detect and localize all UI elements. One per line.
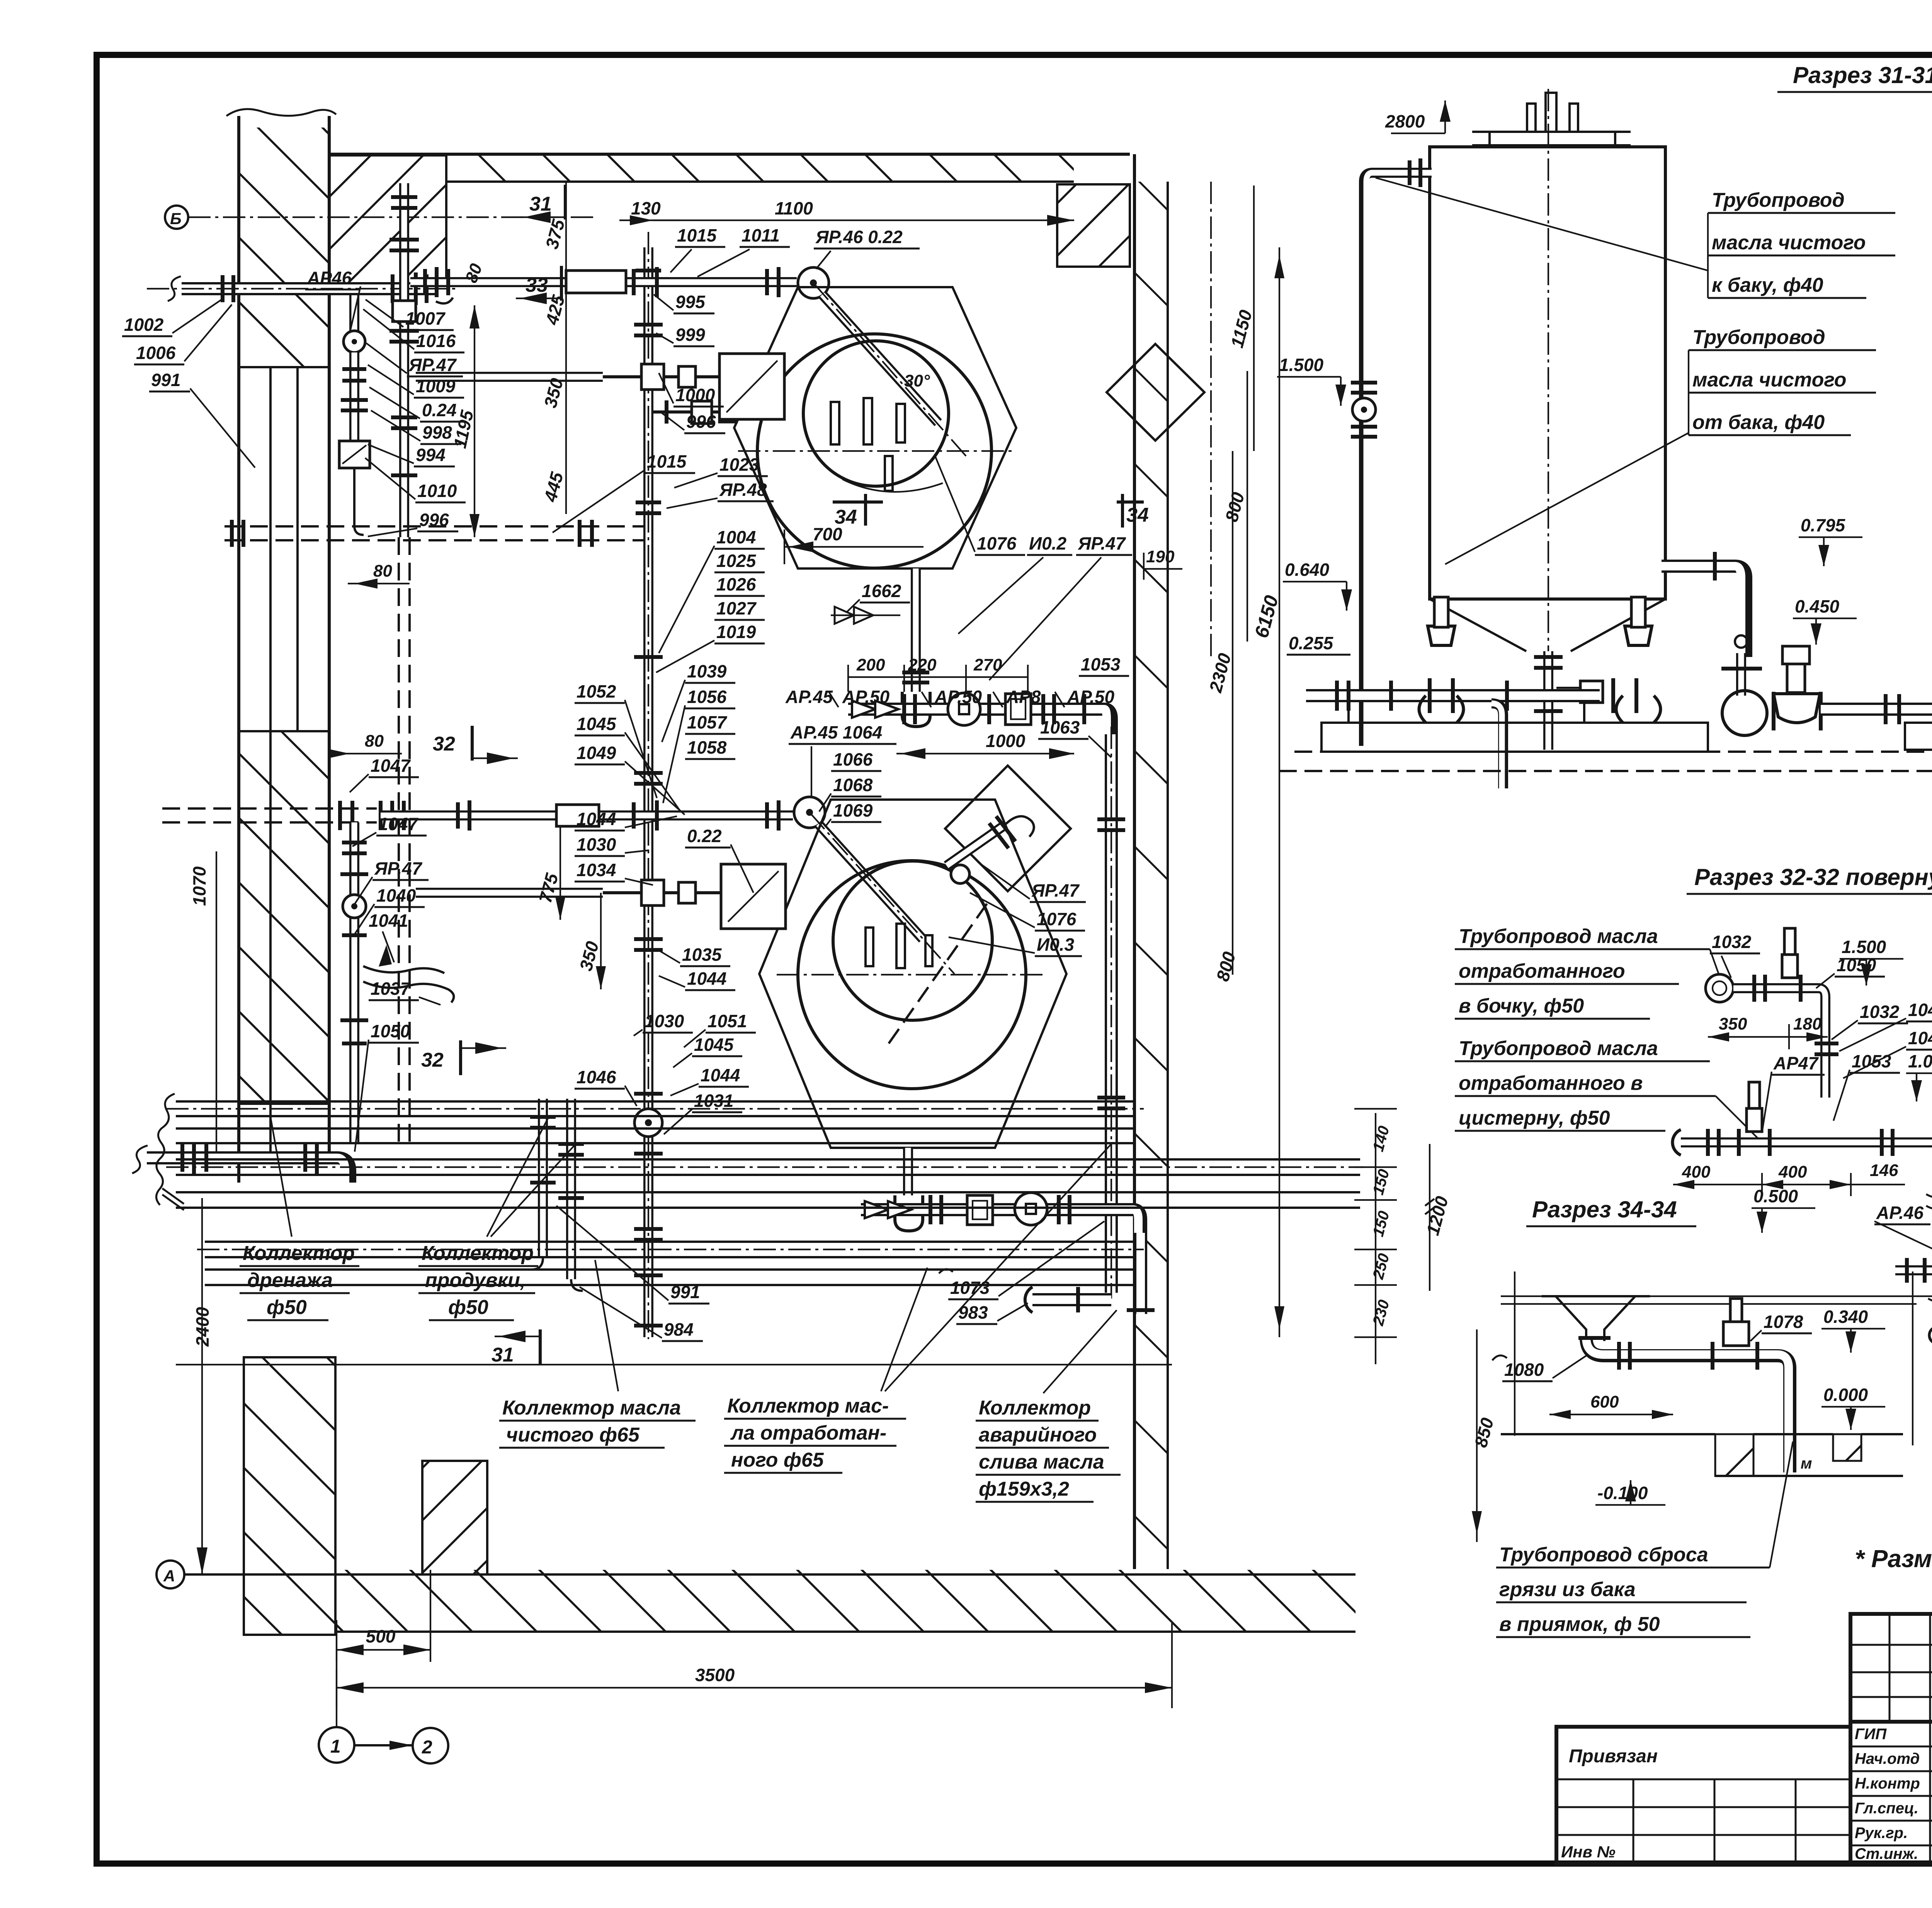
svg-text:АР.45 1064: АР.45 1064 [790,722,882,742]
svg-text:1: 1 [330,1736,341,1757]
collector pipe 4 [176,1192,1360,1208]
label 0.22 b [685,826,753,893]
svg-text:994: 994 [416,445,446,465]
small wall block [422,1461,487,1574]
dim 850 rotated [1470,1329,1497,1542]
svg-text:И0.2: И0.2 [1029,533,1066,553]
section mark 34 right [1117,494,1149,528]
svg-text:1015: 1015 [647,451,687,471]
label 1057 [685,712,735,734]
svg-text:Разрез 32-32 повернуто: Разрез 32-32 повернуто [1694,864,1932,890]
signature table grid [1850,1614,1932,1864]
svg-text:1009: 1009 [416,376,456,396]
tank2 diamond [945,766,1071,891]
svg-text:Трубопровод: Трубопровод [1712,189,1845,211]
svg-text:Привязан: Привязан [1569,1746,1658,1767]
svg-text:1002: 1002 [124,315,164,335]
dim 6150 rotated [1250,247,1284,1337]
svg-text:в бочку, ф50: в бочку, ф50 [1459,995,1584,1017]
svg-text:1.500: 1.500 [1842,937,1886,957]
svg-text:отработанного в: отработанного в [1459,1072,1643,1094]
svg-text:дренажа: дренажа [247,1269,333,1292]
svg-text:1070: 1070 [189,866,209,906]
svg-text:Разрез 34-34: Разрез 34-34 [1532,1197,1677,1222]
label 1000 [659,373,724,407]
svg-text:Гл.спец.: Гл.спец. [1855,1800,1918,1817]
label 1049 [575,743,685,815]
section mark 33 top [516,266,561,304]
tank1 diagonal pipe [813,283,966,456]
svg-text:983: 983 [958,1302,988,1322]
label 1058 [685,737,735,759]
section31 left manifold [1301,597,1708,788]
svg-text:1080: 1080 [1504,1360,1544,1380]
dim 350 rotated [540,376,567,410]
tank2 feed pipe P5 [381,800,793,831]
label 1015 mid [553,451,695,533]
svg-text:1031: 1031 [694,1091,733,1111]
left riser pipe under P1 [339,295,370,535]
label 1046 [575,1067,637,1106]
section 34 ref lines [1501,1271,1932,1445]
svg-text:ЯР.46 0.22: ЯР.46 0.22 [815,227,903,247]
svg-text:ф159х3,2: ф159х3,2 [979,1478,1069,1500]
dim 130 [619,198,680,225]
svg-text:-0.100: -0.100 [1597,1483,1648,1503]
svg-text:1006: 1006 [136,343,176,363]
label ЯР.47 left [366,343,463,376]
label 1040 [354,885,425,935]
left wall column [226,109,336,1183]
label Коллектор дренажа ф50 [240,1117,359,1320]
label 1044 a [575,809,677,831]
svg-text:0.000: 0.000 [1823,1385,1868,1405]
dim 1.500 left [1277,355,1346,406]
dim 800 rotated b [1212,950,1239,984]
svg-text:Нач.отд: Нач.отд [1855,1750,1920,1767]
svg-text:1100: 1100 [775,198,813,218]
svg-text:0.795: 0.795 [1801,515,1846,535]
dim 0.640 [1283,560,1352,611]
label ЯР.47 b [353,858,429,906]
label 1025 [714,551,765,572]
label 1007 [366,300,454,330]
tank1 outer circle [757,334,992,568]
svg-text:996: 996 [686,412,716,432]
svg-text:32: 32 [421,1049,444,1071]
svg-text:ЯР.47: ЯР.47 [1078,533,1126,553]
axis 1 circle [319,1620,354,1763]
svg-text:1030: 1030 [645,1011,684,1031]
label ЯР.46 0.22 [814,227,920,269]
svg-text:ЯР.47: ЯР.47 [1031,880,1080,900]
dim 1195 rotated [450,305,480,537]
dim 350 rotated b [575,893,606,989]
left wall hatched block lower [240,731,329,1104]
label 1030 a [575,834,649,856]
label 1045 [575,714,680,811]
section 34 pipe [1578,1299,1790,1472]
label 983 [956,1302,1028,1324]
svg-text:1051: 1051 [707,1011,747,1031]
label 1010 [365,458,466,502]
feed column C1 [389,183,419,537]
svg-text:слива масла: слива масла [979,1451,1104,1473]
section31 regulator valve [1774,646,1821,730]
dashed horizontal pipe D3 [162,801,404,830]
label 995 [654,292,714,313]
collector left break [156,1094,175,1205]
svg-text:0.255: 0.255 [1289,633,1334,653]
label 1047 b [352,814,427,846]
label 1662 [846,581,910,613]
label 1051 [684,1011,756,1047]
svg-text:1016: 1016 [416,331,456,351]
svg-text:в приямок, ф 50: в приямок, ф 50 [1499,1613,1660,1636]
label block отработанного в цистерну [1455,1037,1762,1142]
svg-text:350: 350 [1719,1014,1747,1033]
dim row 200 220 270 [848,655,1028,692]
svg-text:ф50: ф50 [267,1296,307,1319]
label 1041 [369,911,408,967]
tank 1 left pipe [1351,158,1432,746]
riser R4 from M2 down [1127,1233,1155,1314]
svg-text:1058: 1058 [687,737,727,757]
section mark 34 left [833,494,883,528]
label block Трубопровод масла чистого к баку [1376,178,1895,298]
label 984 bottom [580,1287,703,1341]
svg-text:Коллектор: Коллектор [979,1397,1091,1419]
svg-text:АР.46: АР.46 [1876,1203,1924,1223]
fitting chain under box1 [653,400,750,424]
tank1 center fittings [738,371,1012,492]
tank 1 bottom fitting [1534,651,1603,750]
collector pipe 1 [166,1101,1144,1116]
section 32-32 title [1687,864,1932,894]
dim 1100 [653,198,1074,226]
svg-text:Коллектор масла: Коллектор масла [502,1397,681,1419]
svg-text:Трубопровод масла: Трубопровод масла [1459,1037,1658,1060]
svg-text:1032: 1032 [1860,1002,1900,1022]
label Коллектор масла отработанного ф65 [724,1144,1111,1473]
label block отработанного в бочку [1455,925,1721,1019]
label 1002 [122,298,223,336]
svg-text:1040: 1040 [376,885,416,905]
svg-text:Коллектор мас-: Коллектор мас- [727,1395,889,1417]
svg-text:ЯР.47: ЯР.47 [408,355,457,375]
svg-text:Трубопровод масла: Трубопровод масла [1459,925,1658,948]
label 996 [368,510,458,536]
svg-text:1.000: 1.000 [1908,1051,1932,1071]
svg-text:1078: 1078 [1764,1312,1803,1332]
svg-text:1026: 1026 [716,574,756,594]
label 1066 [831,749,881,771]
svg-text:500: 500 [366,1626,396,1646]
svg-text:Трубопровод: Трубопровод [1692,326,1825,349]
svg-text:3500: 3500 [695,1665,735,1685]
top wall band [329,154,1130,182]
label 991 bottom [556,1206,709,1304]
svg-text:998: 998 [422,422,452,443]
svg-text:80: 80 [365,732,384,751]
svg-text:1000: 1000 [675,385,715,405]
dim 800 rotated a [1221,371,1248,642]
section 34-34 title [1526,1197,1696,1226]
svg-text:984: 984 [664,1319,694,1340]
label block Трубопровод масла чистого от бака [1445,326,1876,564]
svg-text:ЯР.47: ЯР.47 [374,858,423,878]
svg-text:1068: 1068 [833,775,873,795]
floor band [185,1570,1355,1632]
svg-text:масла чистого: масла чистого [1712,231,1866,254]
svg-text:1053: 1053 [1081,654,1121,674]
svg-text:1044: 1044 [701,1065,740,1085]
assembly 32 lower [1672,1082,1932,1221]
tank2 diagonal pipe [810,812,954,974]
label 1047 a [350,756,419,792]
label 994 [368,444,455,466]
collector pipe 3 [166,1159,1364,1175]
svg-text:1011: 1011 [742,225,780,245]
left lower riser R2 [340,822,454,1143]
tank2 inner circle [833,861,992,1020]
svg-text:991: 991 [151,370,181,390]
label 1076 b [970,893,1085,931]
label АР46 valve P1 [305,268,361,333]
label 1027 [714,598,765,620]
PLANDIMS [1210,182,1212,657]
tank1 manifold M1 [848,693,1111,734]
svg-text:ла отработан-: ла отработан- [730,1422,886,1444]
svg-text:1076: 1076 [1037,909,1077,929]
svg-text:995: 995 [675,292,706,312]
dims 400 400 146 0.500 АР.46 [1673,1161,1905,1196]
label 1011 top [697,225,790,277]
svg-text:2400: 2400 [192,1307,213,1347]
svg-text:0.340: 0.340 [1823,1307,1868,1327]
svg-text:1045: 1045 [577,714,617,734]
svg-text:1045: 1045 [694,1035,734,1055]
tank1 hexagon [734,287,1016,568]
tank2 drain pipe [895,1148,923,1231]
svg-text:Трубопровод сброса: Трубопровод сброса [1499,1544,1708,1566]
svg-text:1043: 1043 [1908,1028,1932,1048]
svg-text:1.500: 1.500 [1279,355,1324,375]
svg-text:Рук.гр.: Рук.гр. [1855,1825,1908,1842]
svg-text:991: 991 [670,1282,700,1302]
svg-text:0.24: 0.24 [422,400,457,420]
tank2 hexagon [759,800,1066,1148]
svg-text:1034: 1034 [577,860,616,880]
top-left corner wall block [329,155,446,286]
svg-text:600: 600 [1590,1392,1619,1411]
svg-text:И0.3: И0.3 [1037,934,1074,955]
tank1 small valve 1662 [831,607,900,624]
svg-text:АР46: АР46 [307,268,352,288]
label 1026 [714,574,765,596]
svg-text:80: 80 [373,562,392,580]
svg-text:чистого ф65: чистого ф65 [506,1424,640,1446]
label 1019 [656,622,765,672]
label 700 dim [784,524,923,564]
svg-text:1044: 1044 [687,968,726,989]
svg-text:130: 130 [631,198,661,218]
svg-text:0.22: 0.22 [687,826,722,846]
main riser R1 [634,232,663,1339]
right wall of plan [1134,154,1168,1569]
svg-text:2800: 2800 [1385,111,1425,131]
axis A circle [156,1561,184,1588]
svg-text:400: 400 [1778,1163,1807,1181]
labels АР.45 АР.50 row [785,687,1115,707]
svg-text:грязи из бака: грязи из бака [1499,1578,1636,1601]
tank1 inner circle [803,341,949,486]
title block outer [1850,1614,1932,1864]
svg-text:АР.50: АР.50 [934,687,982,707]
dim 775 rotated [535,825,565,920]
svg-text:1047: 1047 [371,756,411,776]
dim 190 [1144,547,1182,580]
label 1073 [939,1221,1104,1299]
svg-text:продувки,: продувки, [425,1269,526,1292]
dims 350 180 1.500 [1708,1014,1828,1049]
label 1039 [662,661,735,742]
label 996 mid [662,412,725,433]
labels 1032 1050 1032 1047 1043 1.000 1053 АР.47 [1710,932,1760,978]
collector pipe 5 [197,1242,1144,1257]
label 1063 [1038,717,1111,757]
dim 1150 rotated [1227,186,1256,451]
dim 375 rotated [541,182,568,288]
svg-text:1004: 1004 [716,527,756,547]
dashed vertical pipe D2 [399,537,410,1143]
svg-text:1662: 1662 [862,581,901,601]
svg-text:180: 180 [1793,1014,1822,1033]
svg-text:1049: 1049 [577,743,616,763]
dim 1070 rotated left [189,851,216,1159]
svg-text:АР8: АР8 [1006,687,1041,707]
label АР.45 1064 [789,722,896,797]
svg-text:ного ф65: ного ф65 [731,1449,824,1471]
dim 425 rotated [541,293,569,327]
label 1009 [368,365,464,398]
svg-text:Ст.инж.: Ст.инж. [1855,1845,1918,1862]
svg-text:1039: 1039 [687,661,727,681]
svg-text:аварийного: аварийного [979,1424,1097,1446]
svg-text:Разрез 31-31 повернуто: Разрез 31-31 повернуто [1793,62,1932,88]
dim 2.800 [1385,100,1451,133]
svg-text:0.500: 0.500 [1753,1186,1798,1206]
label Коллектор масла чистого ф65 [499,1260,696,1448]
svg-text:1073: 1073 [950,1278,990,1298]
label 1056 [663,687,735,803]
svg-text:1053: 1053 [1852,1051,1891,1071]
label 998 [371,410,461,444]
label 1052 [575,681,657,798]
right wall corner block [1057,184,1130,267]
svg-text:1010: 1010 [417,481,457,501]
label АР.47 diag [978,862,1086,902]
svg-text:АР.50: АР.50 [1067,687,1115,707]
tank1 feed pipe P3 [410,267,797,297]
valve V1 [798,267,829,298]
svg-text:Коллектор: Коллектор [422,1242,534,1265]
label 1016 [363,309,464,352]
svg-text:Инв №: Инв № [1561,1843,1616,1861]
tank2 manifold M2 [861,1193,1141,1233]
collector pipe 2 [176,1128,1134,1143]
svg-text:1041: 1041 [369,911,408,931]
label 999 [656,325,714,346]
svg-text:1057: 1057 [687,712,728,732]
label 1004 [659,527,765,653]
svg-text:1063: 1063 [1040,717,1080,737]
svg-text:АР.50: АР.50 [842,687,890,707]
svg-text:Коллектор: Коллектор [243,1242,355,1265]
dim 2400 rotated [192,1198,213,1574]
svg-text:1025: 1025 [716,551,757,571]
label Коллектор аварийного слива масла [976,1310,1121,1502]
svg-text:масла чистого: масла чистого [1692,369,1847,391]
svg-text:190: 190 [1146,547,1175,566]
pipe P1 top-left through wall [147,272,460,305]
dim 80 rotated wall [462,261,486,285]
svg-text:1052: 1052 [577,681,616,701]
svg-text:А: А [163,1567,175,1585]
section31 right manifold [1821,694,1932,750]
svg-text:1023: 1023 [719,454,759,475]
dim 80 + section 32 upper [328,732,402,758]
svg-text:1037: 1037 [371,979,411,999]
collector pipe 6 [205,1270,1134,1285]
svg-text:200: 200 [856,655,885,674]
dim 0.795 [1799,515,1862,566]
label 1015 top [670,225,725,272]
svg-text:от бака, ф40: от бака, ф40 [1692,411,1825,434]
label 1031 [664,1091,742,1134]
svg-text:1047: 1047 [1908,1000,1932,1020]
label Коллектор продувки ф50 [418,1117,576,1320]
svg-text:996: 996 [419,510,449,530]
label 1050 [355,1021,419,1152]
label 1023 [674,454,768,488]
axis B circle [165,206,595,229]
dim 445 rotated [540,288,567,514]
svg-text:1069: 1069 [833,800,873,820]
label 1053 top [1079,654,1129,676]
svg-text:34: 34 [1126,504,1149,526]
valve V2 [794,797,825,828]
bottom-left tall wall block [244,1357,335,1635]
tank1 assembly connector and box [416,354,784,419]
tank1 drain pipe [902,568,930,727]
svg-text:1015: 1015 [677,225,717,245]
svg-text:146: 146 [1870,1161,1898,1180]
svg-text:1056: 1056 [687,687,727,707]
svg-text:220: 220 [908,655,937,674]
dim 500 bottom [337,1570,430,1662]
svg-text:1066: 1066 [833,749,873,769]
svg-text:0.640: 0.640 [1285,560,1330,580]
section 31 lower [492,1329,540,1366]
label 1068 [819,775,881,812]
svg-text:32: 32 [433,733,455,755]
svg-text:1050: 1050 [371,1021,410,1041]
tank 1 [1430,89,1665,657]
tank1 diamond [1107,344,1204,441]
svg-text:1030: 1030 [577,834,616,854]
svg-text:1019: 1019 [716,622,756,642]
